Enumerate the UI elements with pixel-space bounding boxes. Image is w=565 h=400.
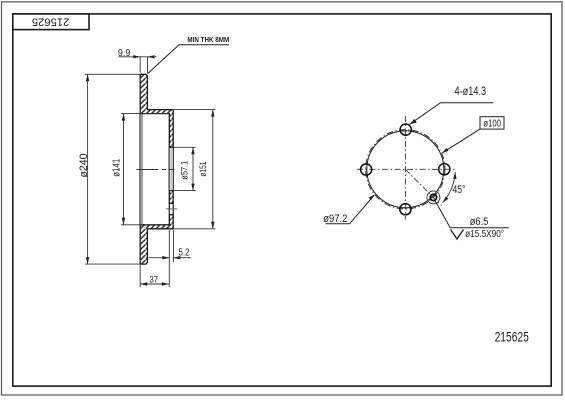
svg-text:215625: 215625 bbox=[32, 15, 70, 27]
svg-text:ø57.1: ø57.1 bbox=[179, 161, 189, 180]
svg-text:ø240: ø240 bbox=[78, 154, 90, 178]
svg-text:MIN THK 8MM: MIN THK 8MM bbox=[187, 35, 229, 44]
svg-text:ø6.5: ø6.5 bbox=[470, 216, 489, 228]
svg-text:215625: 215625 bbox=[495, 329, 529, 345]
svg-text:9.9: 9.9 bbox=[118, 48, 131, 59]
svg-text:ø15.5X90°: ø15.5X90° bbox=[465, 229, 504, 240]
svg-text:5.2: 5.2 bbox=[179, 247, 190, 258]
svg-text:ø151: ø151 bbox=[198, 162, 208, 177]
svg-text:4-ø14.3: 4-ø14.3 bbox=[455, 86, 487, 98]
svg-text:ø100: ø100 bbox=[483, 119, 501, 130]
svg-text:ø141: ø141 bbox=[111, 158, 122, 176]
svg-text:37: 37 bbox=[150, 275, 159, 285]
svg-text:45°: 45° bbox=[453, 184, 466, 196]
svg-text:ø97.2: ø97.2 bbox=[323, 213, 347, 225]
